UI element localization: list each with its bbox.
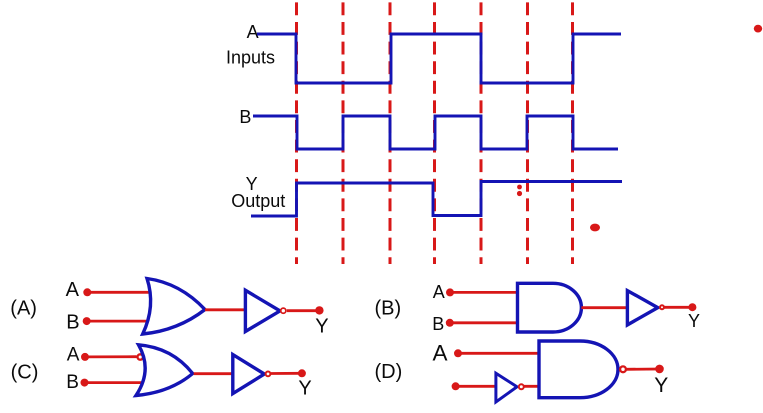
svg-text:A: A (433, 282, 445, 302)
svg-text:Y: Y (315, 316, 328, 338)
svg-text:(A): (A) (10, 298, 37, 320)
svg-text:A: A (66, 279, 80, 301)
timing grid dashed line 4 (433, 2, 436, 264)
svg-text:(D): (D) (375, 361, 403, 383)
svg-text:(C): (C) (11, 362, 39, 384)
option D: wire from B dot to inverter (456, 385, 496, 388)
option B: inverter bubble (660, 305, 664, 309)
svg-text:A: A (433, 341, 448, 366)
option A: input node dot A (83, 288, 91, 296)
option B: output node dot (688, 303, 696, 311)
svg-text:Output: Output (231, 191, 285, 211)
svg-text:Y: Y (654, 374, 668, 397)
option C: inverter bubble (266, 372, 271, 377)
option B: input node dot A (446, 288, 454, 296)
option D: output bubble (620, 366, 626, 372)
option B: input node dot B (446, 319, 454, 327)
option C: wire OR to inverter (194, 372, 233, 375)
option B: output wire to Y (664, 306, 692, 309)
option B: inverter U2 (627, 291, 657, 325)
svg-text:A: A (247, 22, 259, 42)
option D: input node dot B (452, 382, 460, 390)
stray red blob (590, 224, 600, 232)
waveform B (253, 116, 618, 149)
option C: output wire to Y (271, 372, 302, 375)
option D: output wire to Y (625, 368, 659, 371)
option A: output wire to Y (287, 309, 319, 312)
option A: output node dot (315, 306, 323, 314)
option C: inverted input bubble on A (138, 354, 143, 359)
timing grid dashed line 3 (389, 2, 392, 264)
svg-text:(B): (B) (375, 298, 402, 320)
option B: wire from B to AND gate (450, 321, 518, 324)
svg-text:B: B (239, 107, 251, 127)
timing grid dashed line 5 (480, 2, 483, 264)
option D: AND gate (539, 341, 618, 398)
option C: output node dot (298, 369, 306, 377)
svg-text:B: B (66, 312, 79, 334)
svg-text:Y: Y (298, 377, 311, 399)
timing grid dashed line 2 (342, 2, 345, 264)
timing grid dashed line 6 (526, 2, 529, 264)
option C: inverter U3 (233, 355, 265, 394)
option A: input node dot B (83, 317, 91, 325)
option C: OR gate (136, 345, 193, 396)
option B: AND gate (518, 283, 582, 332)
option B: wire AND to inverter (581, 306, 628, 309)
waveform A (257, 34, 621, 83)
svg-text:B: B (432, 314, 444, 334)
option A: wire OR to inverter (205, 308, 246, 311)
svg-text:Inputs: Inputs (226, 48, 275, 68)
option A: OR gate (143, 279, 205, 335)
option D: wire from A to AND gate (458, 352, 540, 355)
option C: wire from B to OR gate (85, 381, 143, 384)
waveform Y (251, 182, 622, 217)
svg-text:A: A (67, 344, 80, 365)
option D: wire inverter to AND gate (524, 385, 540, 388)
option A: inverter U1 (245, 290, 280, 331)
option D: output node dot (655, 365, 664, 374)
stray red dot top right (754, 25, 762, 33)
svg-text:B: B (66, 372, 79, 393)
timing grid dashed line 7 (571, 2, 574, 264)
option C: input node dot A (81, 353, 89, 361)
option A: wire from A to OR gate (87, 291, 150, 294)
stray red dot pair upper (517, 185, 522, 190)
option C: input node dot B (81, 379, 89, 387)
option B: wire from A to AND gate (450, 291, 518, 294)
timing grid dashed line 1 (295, 2, 298, 264)
stray red dot pair lower (517, 191, 522, 196)
option D: input node dot A (454, 349, 462, 357)
svg-text:Y: Y (688, 311, 700, 331)
option A: inverter bubble (281, 308, 286, 313)
option D: inverter bubble (519, 384, 524, 389)
option A: wire from B to OR gate (87, 320, 149, 323)
option D: small inverter U4 (496, 373, 517, 402)
option C: wire from A to bubble (85, 355, 137, 358)
